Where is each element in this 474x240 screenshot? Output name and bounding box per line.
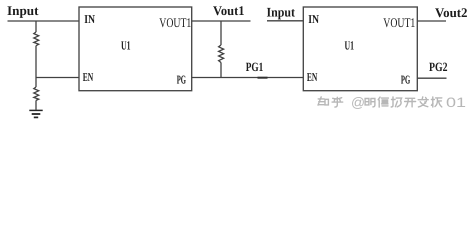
wire Input net to U1 IN (8, 20, 80, 22)
resistor R2 (lower divider) (34, 78, 39, 110)
wire PG1 net: U1 PG to second U1 EN (192, 77, 304, 79)
svg-text:U1: U1 (345, 38, 355, 52)
德 (378, 97, 388, 107)
svg-text:PG: PG (177, 73, 186, 87)
IC U1 (second regulator, symbol outline) (303, 7, 417, 91)
svg-text:@: @ (351, 95, 365, 110)
wire Vout2 (417, 20, 446, 22)
wire VOUT1 of first U1 (192, 20, 251, 22)
wire EN net from divider tap to U1 EN (36, 77, 79, 79)
ground (29, 110, 42, 117)
svg-text:Input: Input (7, 3, 39, 18)
svg-text:Vout2: Vout2 (435, 5, 468, 20)
板 (431, 97, 441, 107)
node PG1 label anchor tick (258, 77, 268, 79)
明 (365, 99, 375, 107)
svg-text:EN: EN (83, 70, 94, 84)
svg-text:EN: EN (307, 70, 318, 84)
watermark 知乎 @明德扬开发板01 (318, 97, 442, 107)
svg-text:IN: IN (308, 12, 319, 26)
svg-text:VOUT1: VOUT1 (159, 15, 191, 30)
svg-text:PG2: PG2 (429, 60, 448, 74)
知 (318, 97, 328, 105)
resistor R3 (PG1 pull-up) (219, 21, 224, 78)
IC U1 (first regulator, symbol outline) (79, 7, 192, 91)
svg-text:VOUT1: VOUT1 (383, 15, 415, 30)
svg-text:Vout1: Vout1 (213, 3, 245, 18)
svg-text:PG: PG (401, 73, 410, 87)
wire Input net into second U1 (267, 20, 303, 22)
svg-text:IN: IN (84, 12, 95, 26)
svg-text:01: 01 (446, 95, 466, 110)
wire PG2 (417, 77, 446, 79)
svg-text:Input: Input (267, 5, 296, 20)
svg-text:U1: U1 (121, 38, 131, 52)
发 (418, 97, 428, 107)
svg-text:PG1: PG1 (246, 60, 264, 74)
开 (405, 98, 416, 107)
resistor R1 (upper divider) (34, 21, 39, 78)
乎 (332, 97, 343, 107)
扬 (391, 97, 401, 107)
